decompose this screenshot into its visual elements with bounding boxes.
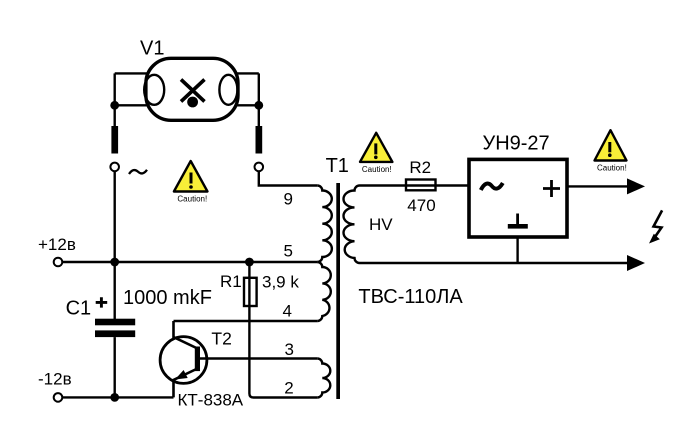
resistor R2 [406,180,436,191]
resistor R1 [244,278,257,306]
node left lamp junction [110,101,119,110]
lamp V1 right electrode [219,75,237,105]
terminal -12v [54,393,63,402]
lightning bolt [653,210,663,240]
lamp V1 left electrode [144,75,164,105]
transformer T1 core [336,183,340,399]
transformer T1 HV winding [344,186,360,263]
wire HV bottom to arrow [360,262,630,264]
wire box ground pin [516,237,518,263]
box plus [543,180,560,197]
wire base to winding 3 [200,357,317,359]
transistor T2 circle [160,337,207,384]
caution triangle 3 [595,130,627,172]
wire left lamp to +12 rail [113,171,115,262]
svg-text:3,9 k: 3,9 k [262,273,299,292]
wire R2 through [406,184,436,186]
svg-text:R1: R1 [220,272,242,291]
AC tilde mark [129,170,147,174]
svg-text:HV: HV [369,215,393,234]
terminal +12v [54,258,63,267]
svg-text:УН9-27: УН9-27 [483,133,550,155]
transistor T2 collector lead [174,321,198,349]
caution triangle 1 [174,161,208,204]
lamp V1 dot [187,97,198,108]
node rail V1 [110,258,119,267]
svg-text:КТ-838А: КТ-838А [178,390,244,409]
svg-text:R2: R2 [409,158,431,177]
transistor T2 emitter arrow [175,370,188,380]
lamp V1 body [146,58,238,120]
fuse bar right [256,126,263,154]
transformer T1 winding 9-5 [317,186,332,263]
svg-text:-12в: -12в [38,370,72,389]
wire R1 top [248,262,250,278]
svg-text:2: 2 [284,378,293,397]
C1 plus mark [96,297,108,307]
svg-text:Caution!: Caution! [177,195,207,204]
wire right lamp to winding 9 [259,171,318,185]
wire +12v rail [62,261,317,263]
svg-text:3: 3 [285,340,294,359]
svg-text:1000 mkF: 1000 mkF [123,287,212,309]
wire left upper lamp lead [115,72,147,74]
node rail R1 [245,258,254,267]
wire C1 top [113,262,115,319]
svg-text:9: 9 [284,190,293,209]
svg-text:5: 5 [284,242,293,261]
node right lamp junction [254,101,263,110]
transformer T1 winding 3-2 [317,359,330,398]
wire -12v rail [62,396,173,398]
wire R2 to box [436,184,468,186]
svg-text:V1: V1 [140,38,164,60]
svg-text:ТВС-110ЛА: ТВС-110ЛА [358,286,463,308]
wire C1 bottom [113,337,115,397]
wire right lower lamp lead [236,104,259,106]
terminal right lamp [254,163,263,172]
node rail C1 [110,393,119,402]
svg-text:T1: T1 [326,155,349,177]
svg-text:Caution!: Caution! [362,165,392,174]
capacitor C1 bottom plate [95,330,135,337]
box ground symbol [516,214,519,225]
wire HV top to R2 [360,184,407,186]
wire R1 to winding 2 [249,306,317,398]
svg-text:T2: T2 [211,328,231,348]
wire collector to winding 4 [174,320,318,322]
capacitor C1 top plate [95,319,135,326]
wire left lamp drop [113,73,115,126]
terminal left lamp [110,163,119,172]
box AC tilde [481,183,503,190]
fuse bar left [111,126,118,154]
wire right lamp drop [258,73,260,126]
wire R1 through [248,278,250,306]
svg-text:+12в: +12в [38,235,76,254]
svg-text:470: 470 [407,196,435,215]
wire box output [567,185,629,187]
transistor T2 emitter lead [174,369,198,398]
svg-text:C1: C1 [66,298,92,320]
wire left lower lamp lead [115,104,147,106]
svg-text:Caution!: Caution! [597,164,627,173]
wire right upper lamp lead [236,72,259,74]
arrow output plus [627,178,645,194]
lamp V1 cross [181,80,205,102]
caution triangle 2 [360,133,392,174]
transistor T2 base bar [195,347,200,372]
svg-text:4: 4 [283,301,292,320]
converter box UN9-27 [469,159,567,237]
arrow output ground [627,255,645,271]
transformer T1 winding 5-4 [317,262,331,321]
